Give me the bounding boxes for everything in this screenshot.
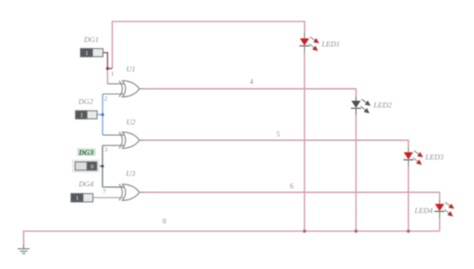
wire net3 DG3 output <box>97 145 103 187</box>
LED1 arrow ray 2 <box>309 44 318 51</box>
svg-text:2: 2 <box>104 95 107 102</box>
wire LED4 to ground rail <box>439 218 441 231</box>
svg-text:LED2: LED2 <box>373 100 392 109</box>
svg-text:LED1: LED1 <box>321 39 340 48</box>
op-amp U3 xor gate <box>119 184 139 200</box>
svg-text:6: 6 <box>290 182 294 190</box>
wire LED2 to ground rail <box>355 115 357 231</box>
svg-text:1: 1 <box>80 113 83 119</box>
wire U2 pin3 stub <box>103 144 125 146</box>
svg-text:DG1: DG1 <box>83 35 99 44</box>
svg-text:1: 1 <box>76 196 79 202</box>
wire LED3 to ground rail <box>407 166 409 231</box>
svg-text:DG4: DG4 <box>78 179 94 188</box>
wire net1 DG1 output to junction <box>103 53 112 69</box>
wire net5 U2 output to LED3 <box>139 140 408 147</box>
svg-text:0: 0 <box>91 165 94 171</box>
op-amp U2 xor gate <box>119 132 139 148</box>
LED3 arrow ray 1 <box>414 151 423 158</box>
LED1 diode (lit red) <box>299 32 309 52</box>
wire LED1 to ground rail <box>304 52 306 231</box>
op-amp U1 xor gate <box>119 81 139 97</box>
svg-text:U1: U1 <box>126 64 135 73</box>
DG3 digital constant box <box>75 162 97 171</box>
wire U1 pin2 stub <box>103 93 124 95</box>
LED4 arrow ray 1 <box>445 202 454 209</box>
LED4 diode (lit red) <box>435 200 445 218</box>
wire net1 junction to U1 pin1 <box>108 69 125 85</box>
wire net4 U1 output to LED2 <box>139 89 356 97</box>
LED3 arrow ray 2 <box>413 158 422 165</box>
wire net1 top rail (DG1 to LED1) <box>112 22 304 69</box>
junction rail LED1 <box>303 230 306 233</box>
svg-text:3: 3 <box>104 146 108 153</box>
DG4 digital constant box <box>71 194 93 203</box>
LED2 diode (off gray) <box>351 97 361 115</box>
svg-text:U3: U3 <box>126 169 135 178</box>
LED1 arrow ray 1 <box>310 37 319 44</box>
LED2 arrow ray 2 <box>361 106 370 113</box>
junction node 1 <box>106 67 109 70</box>
DG1 digital constant box <box>81 49 104 58</box>
ground <box>18 245 30 254</box>
DG2 digital constant box <box>76 111 98 119</box>
wire U3 top input stub <box>103 186 125 188</box>
LED4 arrow ray 2 <box>444 209 453 216</box>
svg-text:U2: U2 <box>126 117 135 126</box>
wire net6 U3 output to LED4 <box>139 192 439 199</box>
wire net DG4 output to U3 pin7 <box>93 197 124 199</box>
label DG3 highlight <box>77 148 96 155</box>
junction node 3 <box>101 165 104 168</box>
junction rail LED2 <box>354 230 357 233</box>
svg-text:LED4: LED4 <box>414 206 433 215</box>
svg-text:5: 5 <box>276 130 280 138</box>
DG3 selection halo <box>72 160 100 173</box>
LED2 arrow ray 1 <box>362 99 371 106</box>
LED3 diode (lit red) <box>403 148 413 167</box>
wire U2 top input stub <box>103 134 124 136</box>
svg-text:DG2: DG2 <box>77 97 93 106</box>
svg-text:DG3: DG3 <box>78 148 94 157</box>
svg-text:LED3: LED3 <box>424 152 443 161</box>
svg-text:0: 0 <box>163 217 167 225</box>
wire ground rail net 0 <box>24 231 440 245</box>
svg-text:1: 1 <box>111 70 114 77</box>
svg-text:7: 7 <box>103 188 107 195</box>
wire net2 DG2 output <box>97 94 103 135</box>
junction node 2 <box>101 113 104 116</box>
svg-text:1: 1 <box>85 51 88 57</box>
svg-text:4: 4 <box>250 78 254 86</box>
junction rail LED3 <box>407 230 410 233</box>
